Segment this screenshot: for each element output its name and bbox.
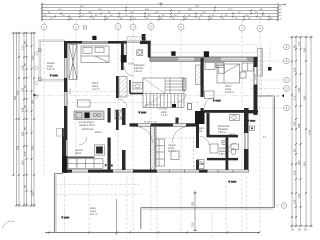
svg-text:170: 170	[20, 45, 24, 50]
svg-text:40,1 m²: 40,1 m²	[90, 213, 98, 216]
WALLS	[34, 34, 274, 233]
svg-text:gard-: gard-	[199, 127, 205, 130]
svg-text:kamra: kamra	[95, 131, 102, 134]
bath wall bl	[67, 157, 94, 159]
sideboard bottom-left room	[68, 159, 103, 169]
svg-text:240: 240	[302, 47, 306, 52]
right wing inner wall	[201, 58, 204, 97]
interior wall x116 mid	[116, 76, 119, 98]
svg-text:C: C	[286, 79, 288, 82]
stair black post	[172, 104, 176, 108]
svg-text:F: F	[37, 94, 39, 98]
svg-text:296: 296	[297, 123, 301, 128]
measure line x195	[193, 191, 197, 232]
exterior wall: right upper	[254, 57, 258, 115]
black sq right side	[268, 67, 272, 71]
exterior wall: bottom	[62, 170, 249, 173]
closet strip corridor	[119, 77, 127, 98]
svg-text:215: 215	[297, 193, 301, 198]
svg-text:150: 150	[292, 67, 296, 72]
svg-text:150/90: 150/90	[255, 73, 257, 80]
svg-text:fürdőszoba: fürdőszoba	[218, 125, 230, 128]
svg-text:90 240 90 154: 90 240 90 154	[144, 122, 158, 124]
chimney at entry	[142, 34, 146, 41]
stair treads upper flight	[165, 78, 184, 94]
svg-text:5,06 m²: 5,06 m²	[47, 68, 55, 71]
top band numbers	[44, 3, 282, 21]
door swing arcs	[79, 66, 236, 151]
svg-text:nappali 1,08 m²: nappali 1,08 m²	[79, 124, 95, 127]
stair block outline	[143, 78, 184, 108]
right axis bubbles	[281, 44, 289, 208]
wardrobe 1	[69, 45, 77, 80]
svg-text:(terasz): (terasz)	[75, 149, 83, 152]
vertical grid dashed lines	[44, 21, 260, 240]
left dimension band lines	[12, 33, 36, 206]
living room right wall	[196, 127, 199, 149]
svg-text:140: 140	[292, 121, 296, 126]
exterior wall: top of left wing	[64, 41, 127, 44]
bottom-left wall corner thick	[62, 128, 66, 173]
svg-text:345: 345	[297, 87, 301, 92]
north-ish arc bottom-left	[2, 221, 15, 228]
stair tread numbers	[145, 105, 167, 111]
windows in bottom wall	[72, 170, 248, 173]
wall piece right of entry	[140, 41, 151, 44]
svg-text:310: 310	[191, 222, 195, 227]
top axis bubbles	[41, 24, 263, 32]
svg-text:300: 300	[30, 145, 34, 150]
svg-text:4,9 m²: 4,9 m²	[161, 114, 168, 117]
window in top wall	[82, 41, 108, 43]
svg-text:szoba: szoba	[168, 148, 175, 150]
right band numbers (rotated)	[291, 41, 311, 231]
stair treads lower flight	[143, 94, 184, 108]
entry recess wall + porch hatch	[148, 42, 151, 58]
washer symbol entry	[137, 50, 143, 56]
right dimension band lines	[290, 37, 313, 226]
svg-text:lefedett: lefedett	[47, 62, 55, 65]
svg-text:150/90: 150/90	[70, 88, 72, 95]
FURNITURE	[34, 45, 285, 219]
horizontal grid dashed lines	[36, 61, 284, 206]
fridge	[115, 110, 122, 119]
exterior wall: left side	[64, 41, 67, 173]
level markers (diamond+text)	[50, 75, 256, 219]
dark boxes lower	[195, 111, 205, 124]
svg-text:HÁLÓ: HÁLÓ	[92, 82, 98, 85]
svg-text:terasz: terasz	[90, 210, 97, 213]
svg-text:365: 365	[30, 99, 34, 104]
step between right walls	[248, 111, 258, 113]
svg-text:+0,00: +0,00	[128, 64, 135, 66]
exterior wall: right lower	[244, 108, 249, 173]
svg-text:HÁLÓ: HÁLÓ	[225, 85, 231, 88]
svg-text:előszoba: előszoba	[134, 68, 144, 70]
left band ticks	[13, 32, 36, 206]
svg-text:175: 175	[292, 95, 296, 100]
svg-text:185: 185	[20, 131, 24, 136]
small circled wall markers left	[34, 52, 37, 99]
terrace edges	[55, 96, 275, 233]
svg-text:200: 200	[20, 160, 24, 165]
balcony right	[258, 49, 263, 77]
interior: bedroom1 right wall	[121, 41, 124, 70]
svg-text:560: 560	[302, 161, 306, 166]
svg-text:140: 140	[292, 199, 296, 204]
double door arcs into living room	[136, 127, 189, 144]
desk bedroom1	[78, 100, 91, 107]
svg-text:420: 420	[15, 90, 19, 95]
WC near stairs walls	[130, 80, 143, 94]
svg-text:előtér: előtér	[161, 111, 167, 114]
canopy dashed outline right wing	[151, 44, 271, 96]
small sq symbol right wall	[250, 126, 255, 131]
svg-text:4,80 m²: 4,80 m²	[218, 131, 226, 134]
svg-text:közlekedő: közlekedő	[134, 65, 145, 67]
desk right bedroom	[205, 91, 215, 99]
svg-text:14,2 m²: 14,2 m²	[92, 88, 100, 91]
svg-text:1400: 1400	[158, 3, 164, 5]
svg-text:D: D	[286, 88, 288, 91]
living room dashed boundary	[157, 138, 194, 170]
svg-text:5,29 m²: 5,29 m²	[134, 70, 142, 73]
wardrobe strip right bedroom	[196, 65, 201, 85]
corridor bottom wall band	[130, 123, 200, 126]
bottom extent line	[45, 232, 260, 234]
svg-text:385: 385	[191, 201, 195, 206]
svg-text:21,6 m²: 21,6 m²	[168, 150, 176, 153]
right band ticks	[291, 36, 312, 227]
svg-text:szoba: szoba	[92, 86, 99, 88]
chimney block on top wall	[92, 36, 96, 40]
svg-text:203: 203	[30, 191, 34, 196]
svg-text:terasz: terasz	[47, 65, 54, 68]
svg-text:háztartási: háztartási	[218, 128, 228, 131]
kamra walls	[108, 108, 111, 123]
svg-text:4,85 m²: 4,85 m²	[219, 153, 227, 156]
svg-text:kijárat: kijárat	[75, 152, 81, 155]
tiny dim text row above corridor wall	[144, 122, 158, 124]
section marks	[34, 94, 285, 99]
svg-text:170: 170	[297, 41, 301, 46]
hatched wall right of stairs	[183, 78, 187, 91]
wc left of stairs fixtures	[133, 83, 143, 90]
svg-text:240: 240	[30, 55, 34, 60]
svg-text:390: 390	[15, 145, 19, 150]
svg-text:120: 120	[23, 151, 27, 156]
left band numbers (rotated)	[13, 41, 35, 196]
svg-text:fedett: fedett	[90, 207, 96, 210]
svg-text:280: 280	[297, 160, 301, 165]
svg-text:kamra: kamra	[229, 133, 236, 136]
svg-text:15x17,8/28: 15x17,8/28	[158, 109, 167, 111]
bed 2 (right bedroom)	[217, 64, 240, 83]
bed 1 (top-left bedroom)	[81, 46, 109, 63]
svg-text:szoba: szoba	[225, 89, 232, 91]
svg-text:1 2 3 4 5 6 7 8 9 10: 1 2 3 4 5 6 7 8 9 10	[145, 105, 161, 107]
chimney blocks on right wing wall	[171, 51, 175, 56]
window gaps in left wall	[64, 58, 67, 156]
kitchen counter	[74, 111, 104, 120]
entry door gap	[127, 41, 140, 42]
top dimension band lines	[42, 3, 285, 21]
top band tick marks	[41, 4, 286, 21]
svg-text:1140: 1140	[307, 129, 311, 135]
middle-right hall walls	[204, 110, 258, 113]
svg-text:konyha étkező: konyha étkező	[79, 121, 95, 124]
svg-text:12,04 m²: 12,04 m²	[225, 91, 234, 94]
svg-text:hálószoba: hálószoba	[219, 151, 230, 153]
svg-text:590: 590	[302, 95, 306, 100]
bathroom bottom-left fixtures	[57, 129, 105, 156]
exterior wall: top of right wing	[150, 57, 258, 61]
svg-text:fürdőszoba: fürdőszoba	[82, 128, 94, 131]
sofa living room	[156, 139, 179, 166]
top-left covered terrace box	[38, 40, 64, 81]
section line vertical x116.5	[116, 199, 118, 235]
svg-text:150: 150	[292, 170, 296, 175]
svg-text:nappali: nappali	[168, 145, 176, 147]
stair diagonals	[143, 78, 165, 108]
bottom line ticks	[48, 232, 260, 234]
niche box	[121, 55, 126, 63]
window in right wing top wall	[221, 58, 247, 61]
bath middle-right fixtures	[210, 115, 239, 155]
small box near stairs	[188, 104, 192, 110]
living room left wall	[151, 125, 156, 170]
furniture row right bedroom top	[205, 63, 215, 70]
svg-text:vendég: vendég	[219, 148, 227, 150]
